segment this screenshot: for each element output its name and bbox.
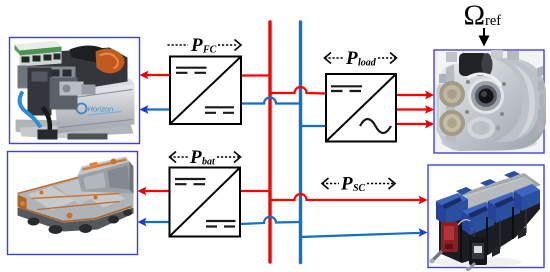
wire: red bus to inverter hopping blue bus xyxy=(270,87,326,94)
wire: FC converter blue output hopping red bus to blue bus xyxy=(241,98,301,104)
svg-text:load: load xyxy=(358,58,377,69)
svg-text:P: P xyxy=(189,147,202,168)
motor photo xyxy=(435,50,546,152)
wire: battery blue lead xyxy=(138,218,170,227)
motor image box xyxy=(434,50,544,153)
svg-text:FC: FC xyxy=(202,45,217,56)
wire: battery converter red output to red bus xyxy=(240,190,270,192)
svg-text:P: P xyxy=(345,48,358,69)
DC/AC inverter U3 (load) xyxy=(326,74,396,142)
svg-text:P: P xyxy=(340,174,353,195)
wire: blue bus to supercapacitor xyxy=(301,228,428,237)
label P_bat with dashed double arrow xyxy=(170,147,241,168)
label P_load with dashed double arrow xyxy=(325,48,397,69)
battery image box xyxy=(8,152,138,255)
battery pack photo xyxy=(18,157,134,235)
svg-text:Ω: Ω xyxy=(464,0,486,32)
fuel cell image box xyxy=(10,38,140,144)
wire: inverter phase output 2 xyxy=(396,105,434,114)
DC/DC converter U2 (battery) xyxy=(170,168,241,237)
fuel cell photo xyxy=(15,41,135,140)
svg-text:P: P xyxy=(190,35,203,56)
label Omega_ref xyxy=(464,0,502,32)
svg-text:ref: ref xyxy=(485,13,501,29)
red DC bus xyxy=(268,22,271,262)
wire: FC converter red output to red bus xyxy=(241,74,270,76)
wire: red bus to supercapacitor hopping blue bus xyxy=(270,194,428,204)
wire: blue bus to inverter xyxy=(301,125,327,127)
supercapacitor image box xyxy=(428,165,544,268)
label P_SC with dashed double arrow xyxy=(322,174,395,195)
svg-text:SC: SC xyxy=(353,183,366,194)
DC/DC converter U1 (fuel cell) xyxy=(170,57,241,125)
arrow: omega ref into motor xyxy=(479,28,490,47)
svg-text:Horizon: Horizon xyxy=(88,105,114,114)
wire: inverter phase output 1 xyxy=(396,91,434,100)
wire: battery converter blue output hopping red bus to blue bus xyxy=(240,217,301,224)
svg-text:bat: bat xyxy=(202,157,216,168)
wire: fuel cell blue lead xyxy=(140,105,171,114)
label P_FC with dashed right arrow xyxy=(168,35,242,56)
blue DC bus xyxy=(299,22,302,263)
wire: battery red lead xyxy=(138,187,170,196)
supercapacitor photo xyxy=(430,171,542,271)
wire: inverter phase output 3 xyxy=(396,120,434,129)
wire: fuel cell red lead xyxy=(140,71,171,80)
